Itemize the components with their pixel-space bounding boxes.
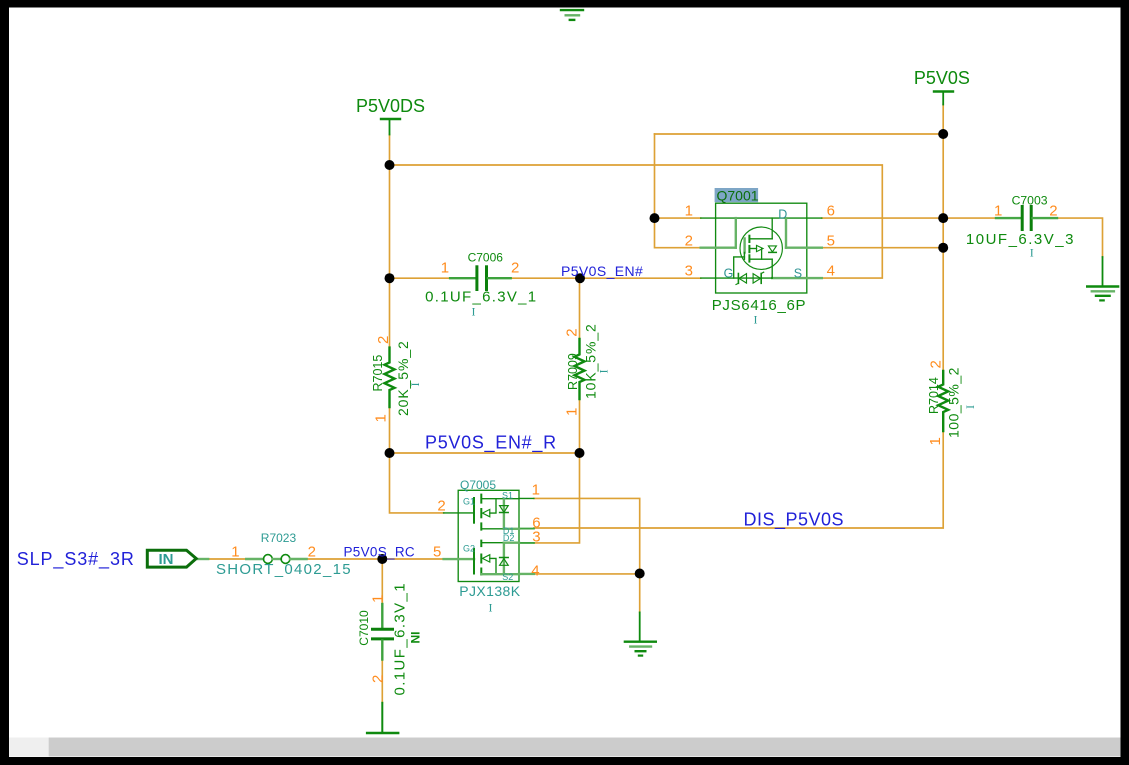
internal tie pin2: [716, 218, 807, 278]
svg-text:R7023: R7023: [261, 531, 297, 545]
fet2 gate line: [458, 558, 474, 560]
svg-text:P5V0DS: P5V0DS: [356, 96, 425, 116]
fet1 zener: [503, 499, 505, 529]
svg-text:G2: G2: [463, 544, 475, 554]
gate tie down to pin 3 rail: [734, 257, 745, 278]
svg-text:P5V0S_RC: P5V0S_RC: [344, 545, 415, 560]
svg-text:I: I: [754, 313, 758, 327]
internal zener (drain-source): [768, 246, 776, 252]
svg-text:P5V0S_EN#: P5V0S_EN#: [561, 263, 643, 279]
power symbol P5V0S: [934, 92, 953, 105]
pin 5 lead: [807, 246, 822, 248]
svg-text:R7009: R7009: [566, 353, 580, 390]
wire Q7005 pin1 to ground branch: [534, 498, 640, 612]
svg-text:4: 4: [531, 563, 539, 580]
wire R7014 pin1 to DIS_P5V0S row: [534, 431, 943, 528]
node junction P5V0S_EN#_R left: [385, 448, 395, 458]
wire P5V0DS row to Q7001 pin4: [390, 165, 883, 278]
gate-source rail: [716, 277, 773, 279]
svg-text:G: G: [724, 266, 734, 280]
scrollbar track: [9, 738, 1121, 757]
fet1 gate line: [458, 512, 474, 514]
svg-text:PJS6416_6P: PJS6416_6P: [712, 297, 807, 314]
back-to-back zener diode right: [753, 274, 761, 283]
svg-text:PJX138K: PJX138K: [459, 583, 520, 599]
Q7001 highlight box: [715, 188, 759, 202]
mosfet channel dashes: [748, 236, 750, 242]
svg-text:DIS_P5V0S: DIS_P5V0S: [744, 510, 845, 531]
wire C7003 pin2 to ground: [1057, 218, 1103, 257]
svg-text:1: 1: [441, 260, 449, 277]
svg-text:1: 1: [564, 408, 581, 416]
svg-text:2: 2: [928, 360, 945, 368]
wire R7015 pin1 down to node P5V0S_EN#_R: [389, 407, 391, 453]
wire node P5V0S_EN# down to R7009: [579, 278, 581, 339]
transistor Q7005 (PJX138K): [444, 490, 534, 581]
svg-text:Q7001: Q7001: [717, 188, 759, 204]
wire Q7005 pin4 to ground branch: [534, 573, 640, 575]
svg-text:3: 3: [685, 263, 693, 280]
svg-text:I: I: [963, 405, 977, 409]
node junction P5V0S at pin6 row: [938, 213, 948, 223]
fet2 zener: [503, 543, 505, 575]
resistor R7009: [575, 339, 585, 399]
capacitor C7010: [373, 604, 393, 660]
svg-text:I: I: [408, 383, 422, 387]
svg-text:R7015: R7015: [371, 355, 385, 392]
fet1 source S1 row: [481, 498, 519, 500]
svg-text:SHORT_0402_15: SHORT_0402_15: [216, 561, 352, 578]
pin 4 lead: [807, 277, 822, 279]
svg-text:2: 2: [685, 233, 693, 250]
svg-text:2: 2: [437, 498, 445, 515]
svg-text:SLP_S3#_3R: SLP_S3#_3R: [17, 549, 135, 570]
svg-text:20K_5%_2: 20K_5%_2: [395, 340, 411, 416]
internal drain rail pins 1-6: [716, 217, 807, 219]
bar ground at C7010: [367, 703, 398, 733]
svg-text:I: I: [597, 370, 611, 374]
internal tie pin5: [786, 246, 807, 248]
pin 6 lead: [807, 217, 822, 219]
scrollbar thumb: [49, 738, 1121, 757]
wire node P5V0S_EN#_R to Q7005 pin2: [390, 453, 444, 513]
node junction P5V0S top: [938, 129, 948, 139]
svg-text:1: 1: [231, 544, 239, 561]
wire Q7001 pin5 row: [822, 247, 943, 249]
mosfet drain connection: [749, 238, 772, 240]
wire R7023 pin2 to Q7005 pin5: [307, 558, 444, 560]
svg-text:2: 2: [308, 544, 316, 561]
svg-text:IN: IN: [159, 551, 174, 568]
pin 4 lead: [519, 573, 534, 575]
svg-text:I: I: [472, 305, 476, 319]
wire P5V0S vertical to R7014: [942, 105, 944, 372]
Q7005 body box: [458, 490, 519, 581]
node junction P5V0S at pin5 row: [938, 243, 948, 253]
svg-text:S1: S1: [502, 490, 513, 500]
ground (top, clipped by frame): [561, 10, 583, 20]
node junction Q7005 pin4 ground: [635, 569, 645, 579]
svg-text:10K_5%_2: 10K_5%_2: [583, 323, 599, 399]
node junction P5V0DS top: [385, 160, 395, 170]
node junction P5V0S_EN#_R right: [575, 448, 585, 458]
svg-text:S: S: [794, 266, 802, 280]
svg-text:I: I: [489, 601, 493, 615]
ground at Q7005 source branch: [625, 612, 656, 655]
internal source rail segment: [772, 277, 807, 279]
wire C7010 pin2 to bar symbol: [381, 658, 383, 703]
svg-text:I: I: [1030, 246, 1034, 260]
wire P5V0DS vertical from power symbol to R7015: [389, 135, 391, 348]
back-to-back zener diode left: [737, 274, 739, 284]
capacitor C7003: [996, 207, 1057, 230]
svg-text:NI: NI: [409, 632, 423, 644]
svg-text:C7010: C7010: [357, 610, 371, 646]
svg-text:P5V0S: P5V0S: [914, 68, 970, 88]
wire P5V0S_EN#_R horizontal: [390, 452, 580, 454]
wire C7006 pin2 to Q7001 pin3: [510, 277, 700, 279]
svg-text:6: 6: [827, 203, 835, 220]
svg-text:2: 2: [375, 336, 392, 344]
fet2 body arrow: [483, 555, 490, 562]
ground at C7003: [1087, 257, 1118, 300]
mosfet circle: [740, 227, 782, 269]
fet1 gate plate: [473, 498, 475, 523]
svg-text:1: 1: [532, 482, 540, 499]
svg-text:10UF_6.3V_3: 10UF_6.3V_3: [966, 231, 1075, 248]
svg-text:1: 1: [685, 203, 693, 220]
port IN (SLP_S3#_3R): [147, 550, 196, 567]
pin 1 lead: [519, 497, 534, 499]
svg-text:R7014: R7014: [927, 377, 941, 414]
svg-text:0.1UF_6.3V_1: 0.1UF_6.3V_1: [392, 582, 409, 696]
node junction P5V0S_EN#: [575, 273, 585, 283]
svg-text:2: 2: [564, 328, 581, 336]
node junction Q7001 pin1 branch: [650, 213, 660, 223]
pin 2 lead: [444, 512, 459, 514]
svg-text:Q7005: Q7005: [460, 478, 496, 492]
resistor R7015: [385, 348, 395, 407]
fet1 drain D1 row: [481, 528, 504, 530]
wire node P5V0S_EN#_R to Q7005 pin3: [534, 453, 580, 543]
mosfet gate plate: [743, 239, 745, 253]
svg-text:D: D: [778, 207, 787, 221]
svg-text:C7003: C7003: [1012, 193, 1048, 207]
svg-text:G1: G1: [463, 497, 475, 507]
node junction P5V0DS at C7006: [385, 273, 395, 283]
wire P5V0DS to C7006 pin1: [390, 277, 452, 279]
svg-text:C7006: C7006: [468, 251, 504, 265]
wire R7009 pin1 down to node P5V0S_EN#_R: [579, 399, 581, 453]
svg-text:1: 1: [370, 595, 387, 603]
resistor R7023 (short): [196, 555, 307, 564]
svg-text:1: 1: [927, 437, 944, 445]
svg-text:100_5%_2: 100_5%_2: [946, 367, 962, 438]
pin 5 lead: [444, 558, 459, 560]
wire Q7001 pin6 row to C7003: [822, 217, 996, 219]
svg-text:2: 2: [1049, 203, 1057, 220]
pin 6 lead: [519, 528, 534, 530]
svg-text:0.1UF_6.3V_1: 0.1UF_6.3V_1: [425, 289, 537, 306]
pin 2 lead: [701, 246, 716, 248]
svg-text:2: 2: [511, 260, 519, 277]
wire top horizontal to P5V0S: [655, 133, 944, 135]
node junction P5V0S_RC: [377, 554, 387, 564]
svg-text:D2: D2: [503, 533, 515, 543]
pin 3 lead: [701, 277, 716, 279]
wire Q7001 pin1 stub: [655, 217, 701, 219]
fet2 channel dashes: [480, 541, 482, 547]
wire vertical branch to Q7001 pins 1 and 2: [655, 134, 701, 248]
fet2 gate plate: [473, 549, 475, 574]
fet2 drain D2 row: [481, 542, 504, 544]
svg-text:P5V0S_EN#_R: P5V0S_EN#_R: [425, 433, 557, 454]
mosfet source connection: [749, 258, 772, 260]
fet2 source S2 row: [481, 573, 519, 575]
svg-text:2: 2: [370, 675, 387, 683]
Q7001 body box: [716, 203, 807, 293]
fet1 body arrow: [483, 509, 490, 516]
capacitor C7006: [450, 267, 511, 290]
svg-text:5: 5: [827, 233, 835, 250]
resistor R7014: [938, 371, 948, 431]
mosfet body arrow: [749, 248, 756, 250]
fet1 channel dashes: [480, 495, 482, 503]
wire node P5V0S_RC down to C7010 pin1: [381, 559, 383, 604]
power symbol P5V0DS: [381, 119, 400, 135]
wire SLP_S3#_3R port to R7023 pin1: [208, 558, 246, 560]
svg-text:4: 4: [827, 263, 835, 280]
pin 1 lead: [701, 217, 716, 219]
svg-text:1: 1: [373, 414, 390, 422]
svg-text:1: 1: [994, 203, 1002, 220]
svg-text:5: 5: [433, 544, 441, 561]
svg-text:3: 3: [532, 529, 540, 546]
svg-text:S2: S2: [502, 572, 513, 582]
transistor Q7001 (PJS6416_6P): [701, 188, 822, 293]
pin 3 lead: [519, 542, 534, 544]
